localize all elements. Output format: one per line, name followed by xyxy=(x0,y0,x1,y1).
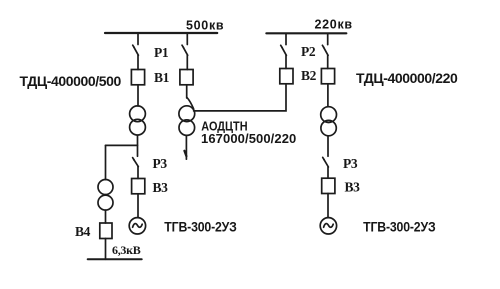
svg-text:ТГВ-300-2УЗ: ТГВ-300-2УЗ xyxy=(164,219,236,235)
breaker B1 xyxy=(131,70,144,85)
svg-text:500кв: 500кв xyxy=(186,19,224,33)
disconnector P3 left xyxy=(133,158,139,167)
wire: T1 down through junction to P3 left xyxy=(137,135,139,156)
transformer T2 ТДЦ-400000/220 xyxy=(321,107,337,136)
label АОДЦТН xyxy=(201,119,247,134)
svg-text:167000/500/220: 167000/500/220 xyxy=(201,131,296,146)
svg-text:220кв: 220кв xyxy=(315,18,353,32)
busbar 500kV xyxy=(105,32,217,34)
wire: junction to aux branch xyxy=(106,144,138,146)
svg-text:ТГВ-300-2УЗ: ТГВ-300-2УЗ xyxy=(363,219,435,235)
svg-text:В1: В1 xyxy=(154,70,170,85)
wire: bus to disconnector P1 xyxy=(137,33,139,45)
tie wire AT to 220kV side xyxy=(194,85,286,111)
house transformer xyxy=(98,180,113,211)
wire: transformer to breaker B4 xyxy=(105,210,107,223)
svg-text:В3: В3 xyxy=(345,180,361,195)
busbar 220kV xyxy=(266,32,346,34)
svg-text:Р3: Р3 xyxy=(343,156,358,171)
breaker B2 xyxy=(280,69,293,84)
breaker B4 xyxy=(100,223,112,239)
disconnector P3 right xyxy=(323,157,329,167)
wire: bus to disconnector P2 xyxy=(285,33,287,44)
label ТГВ-300-2УЗ right xyxy=(363,219,435,235)
wire: T2 to disconnector P3 right xyxy=(327,136,329,157)
svg-text:Р3: Р3 xyxy=(153,156,168,171)
wire: B1 to transformer T1 xyxy=(137,85,139,106)
generator G2 ТГВ-300-2УЗ right xyxy=(320,218,336,234)
generator G1 ТГВ-300-2УЗ left xyxy=(129,218,145,234)
wire: B3 to generator left xyxy=(137,194,139,218)
disconnector P2 xyxy=(281,45,287,55)
svg-text:Р2: Р2 xyxy=(301,44,316,59)
wire: aux branch down to house transformer xyxy=(105,145,107,179)
disconnector T2 branch xyxy=(322,45,328,55)
neutral tick xyxy=(184,151,186,156)
breaker T2 branch xyxy=(321,69,334,84)
wire: breaker to blade tap xyxy=(186,85,188,98)
wire: disconnector to breaker AT xyxy=(186,55,188,69)
wire: P2 to breaker B2 xyxy=(285,55,287,68)
svg-text:6,3кВ: 6,3кВ xyxy=(112,243,141,257)
label ТГВ-300-2УЗ left xyxy=(164,219,236,235)
wire: P3 to B3 right xyxy=(327,167,329,178)
wire: B4 to 6.3kV bus xyxy=(105,239,107,260)
svg-text:В3: В3 xyxy=(153,180,169,195)
disconnector P1 xyxy=(133,45,139,55)
svg-text:В2: В2 xyxy=(301,68,317,83)
transformer T1 ТДЦ-400000/500 xyxy=(130,106,146,135)
breaker B3 left xyxy=(132,179,145,194)
wire: bus to disconnector of AT branch xyxy=(186,33,188,45)
wire: B3 to generator right xyxy=(327,194,329,218)
svg-text:В4: В4 xyxy=(75,224,91,239)
wire: P1 to breaker B1 xyxy=(137,55,139,69)
busbar 6.3kV xyxy=(88,258,142,260)
wire: disconnector to breaker T2 xyxy=(327,55,329,68)
breaker AT branch xyxy=(180,70,193,85)
wire: bus to disconnector T2 branch xyxy=(327,33,329,44)
svg-text:ТДЦ-400000/500: ТДЦ-400000/500 xyxy=(20,73,122,89)
wire: breaker to transformer T2 xyxy=(327,84,329,107)
svg-text:Р1: Р1 xyxy=(154,45,169,60)
breaker B3 right xyxy=(322,178,335,193)
disconnector AT branch xyxy=(182,45,188,55)
autotransformer АОДЦТН 167000/500/220 xyxy=(179,106,195,136)
wire: P3 to B3 left xyxy=(137,167,139,179)
svg-text:ТДЦ-400000/220: ТДЦ-400000/220 xyxy=(356,70,458,86)
blade tap to 220kV tie xyxy=(187,98,194,109)
wire: AT neutral stub xyxy=(185,135,187,159)
